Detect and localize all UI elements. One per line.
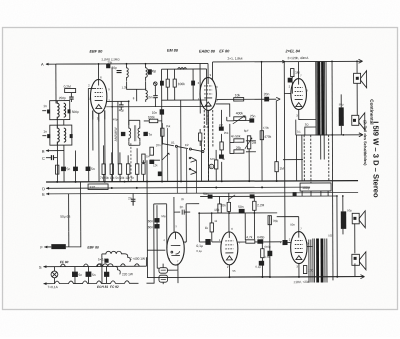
tube U5 ECC83 [221,232,238,265]
svg-text:220 1W: 220 1W [122,272,133,276]
svg-text:25k: 25k [236,146,242,150]
switch verticals [168,128,197,193]
resistor 16k [218,204,221,213]
long verticals right mid [302,135,324,180]
svg-text:1n: 1n [43,104,47,108]
bottom bus right [269,276,364,278]
U4 socket [159,268,168,274]
svg-text:2×EL 84: 2×EL 84 [284,49,300,53]
electrolytic C3 [339,107,344,126]
svg-text:25k: 25k [224,131,229,135]
svg-text:1k: 1k [205,226,209,230]
dashed tuning line [130,143,132,181]
U4 wires [163,197,200,284]
capacitor in can left [47,109,50,113]
svg-text:E: E [42,192,45,197]
anode resistor 10k [217,98,277,100]
resistor R2 100k [173,79,176,87]
svg-text:0,1: 0,1 [297,130,301,134]
svg-text:20p: 20p [108,60,113,64]
diode AVC long line [106,105,210,107]
volume pot 400k [234,117,246,121]
speaker SP4 [352,254,360,265]
cap 2n top [174,210,190,215]
cap 0,1u [259,261,264,265]
top bus to speakers [213,60,363,63]
ratio detector coils [129,125,131,141]
svg-text:7n: 7n [148,133,152,137]
svg-text:I 5I9 W – 3 D – Stereo: I 5I9 W – 3 D – Stereo [371,121,380,198]
junction dots bus [56,180,277,189]
wire to SP1 [356,61,358,115]
svg-text:40p: 40p [113,117,118,121]
svg-text:±10V, +234: ±10V, +234 [293,280,309,284]
bottom long bus [147,276,364,279]
bus E [46,193,358,194]
svg-text:250p: 250p [59,96,66,100]
cap on 269 line [268,251,272,256]
svg-text:50μ: 50μ [347,208,352,212]
electrolytic C8 [341,211,346,229]
resistor R1 [166,79,169,87]
wires splitter top [221,193,277,240]
svg-text:20p: 20p [112,66,118,70]
terminal arrows left edge [43,63,50,285]
capacitor C5 5n [61,167,65,171]
svg-text:16k: 16k [214,208,220,212]
IF can L3/L4 lower [50,125,72,145]
wire top of U1 [57,63,208,79]
capacitor C1 [160,81,163,85]
svg-text:5n: 5n [78,273,82,277]
coil L8 horizontal [178,68,187,70]
svg-text:25k: 25k [166,124,171,128]
svg-text:U1: U1 [171,141,175,145]
connector block label [88,184,108,190]
grid cap 50n [283,240,287,244]
svg-text:20n: 20n [156,143,161,147]
resistor 100k horiz [149,119,158,123]
capacitor C7 5n [86,167,90,171]
svg-text:EABC 80 EF 80‌: EABC 80 EF 80‌ [199,49,230,53]
capacitor in lower can left [47,134,50,138]
coil L7 [146,88,148,102]
verticals below speaker bus [304,135,329,183]
svg-text:1,5k: 1,5k [264,255,270,259]
speaker SP3 [352,213,359,224]
svg-text:20n: 20n [264,92,270,96]
U3 wires [284,61,316,240]
resistor row under ratio det [102,164,105,175]
lamp [51,271,58,278]
svg-text:100p: 100p [302,186,310,190]
grid wire left of tube [88,88,95,181]
svg-text:50μ: 50μ [161,214,166,218]
cap 0,1 [206,239,211,244]
output transformer T1 [316,61,318,135]
svg-text:5Ω: 5Ω [328,233,332,237]
main bus 1 [46,181,358,182]
capacitor 20p [117,71,122,73]
vertical from top bus [261,62,263,99]
svg-text:(2. Teil des Schaltbildes): (2. Teil des Schaltbildes) [363,120,368,166]
svg-text:S: S [39,265,42,270]
contact forks [190,157,196,174]
svg-text:2×1, 1,8k4: 2×1, 1,8k4 [228,57,243,61]
speaker SP1 [354,73,361,83]
wire tube grid to can [56,63,97,65]
svg-text:ECH 81: ECH 81 [97,285,108,289]
capacitor C2 [192,81,195,85]
svg-text:10k: 10k [235,93,241,97]
vertical drops row [104,145,147,181]
speaker SP2 [352,115,359,125]
cap 2n below bus [131,199,136,201]
vertical mid-left to rectifier [147,181,165,277]
svg-text:100k: 100k [178,82,186,86]
cap 50n [239,209,244,213]
svg-text:70k: 70k [273,219,279,223]
pot arrow small [162,153,169,160]
svg-text:1,5M: 1,5M [203,125,210,129]
capacitor in can right [68,109,71,113]
svg-text:A: A [41,62,44,67]
svg-text:K2: K2 [185,143,189,147]
resistor 1,5k [261,249,264,258]
svg-text:2×120h, 40mA: 2×120h, 40mA [288,56,310,60]
svg-text:5n: 5n [92,273,96,277]
resistor 70k [268,216,271,225]
svg-text:10n: 10n [152,111,158,115]
wire from A down [55,64,57,103]
heater bottom wave [43,281,138,284]
caps 50n pair [155,218,159,222]
capacitor in lower can right [70,134,73,138]
circled D [209,164,214,169]
resistor 470k [260,131,263,140]
AVC diode line [106,67,129,181]
bus line at 135.5 [296,134,363,136]
U6 wires [277,217,313,278]
svg-text:1M: 1M [146,154,151,158]
svg-text:50μ: 50μ [339,102,344,106]
IF can L1/L2 top [50,101,70,120]
svg-text:1n: 1n [43,130,47,134]
heater caps [72,272,77,277]
svg-text:C+400 1W: C+400 1W [130,257,145,261]
svg-text:EBF 80: EBF 80 [87,245,99,249]
heater vertical links [75,257,155,283]
svg-text:2n: 2n [181,197,185,201]
svg-text:5n: 5n [91,167,95,171]
svg-text:0,1μ: 0,1μ [196,244,203,248]
speaker wires [337,196,355,277]
svg-text:AM/UKW: AM/UKW [114,127,118,142]
svg-text:50n: 50n [148,225,154,229]
cap 20n left [150,147,154,155]
svg-text:C: C [42,156,45,161]
svg-text:7×0,1A: 7×0,1A [48,285,59,289]
loudness pot 2M [247,136,250,149]
cap on AVC line [107,64,110,67]
svg-text:1,2k: 1,2k [122,85,128,89]
resistor 20k [227,202,230,211]
winding vertical [101,254,103,283]
svg-text:4n 50k: 4n 50k [231,134,241,138]
winding bracket right1 [125,254,130,262]
svg-text:1M: 1M [279,167,284,171]
svg-text:15n: 15n [147,95,153,99]
tube U2 EABC80 [200,77,217,110]
switch contacts diag [163,143,202,151]
svg-text:EBF 80: EBF 80 [89,50,103,54]
EM80 filter box top wire [162,68,207,70]
choke block [51,244,66,249]
cathode resistor [303,266,306,274]
capacitor C6 5n [73,167,77,171]
svg-text:7k 50k 12k 5n 50k 12k 1k: 7k 50k 12k 5n 50k 12k 1k [100,176,135,180]
det wires [129,120,140,145]
cap on bus4 [250,195,254,198]
svg-text:0,1μ: 0,1μ [196,249,202,253]
svg-text:1M: 1M [219,123,224,127]
resistor 4,7k [246,240,255,243]
svg-text:50n: 50n [203,192,209,196]
tone box [300,183,331,191]
winding cap dark [104,259,108,263]
rectifier tube U4 [167,232,185,265]
wires EM80 section [162,69,207,100]
svg-text:640p: 640p [264,245,271,249]
cap 640p [258,240,263,244]
svg-text:2n: 2n [128,196,132,200]
cap beside det [121,132,125,135]
resistor 2,2M [253,201,256,210]
right vertical wire [331,61,334,280]
resistor 1M right [275,162,278,172]
output transformer T2 [309,239,315,283]
tube U1 pins [93,110,105,121]
resistor 0,2M [65,89,76,93]
svg-text:12k: 12k [153,163,158,167]
svg-text:5n: 5n [66,167,70,171]
cap at coil L7 [148,70,151,75]
svg-text:3Ω: 3Ω [305,123,309,127]
loudness resistors [234,139,244,142]
svg-text:25n: 25n [250,114,256,118]
svg-text:2M: 2M [252,141,257,145]
resistor R3 [55,165,58,174]
svg-text:50n: 50n [238,205,244,209]
tube U3 EL84 top [291,79,307,110]
tube U6 EL84 bottom [291,232,308,264]
svg-text:8μF: 8μF [244,129,249,133]
cap 15n [153,96,158,98]
caps left column [220,142,223,150]
arrow terminal on top bus [282,60,285,63]
heater mid bumps [60,264,139,267]
svg-text:500p: 500p [72,110,79,114]
svg-text:470k: 470k [264,135,271,139]
resistor R5 [198,133,201,141]
svg-text:B: B [42,149,45,154]
svg-text:E97····: E97···· [90,185,100,189]
grid network parts [291,69,294,77]
U2 wires top [200,62,213,114]
svg-text:EF 80: EF 80 [60,260,69,264]
pin numbers U1 [88,59,353,273]
svg-text:470k: 470k [263,126,270,130]
arrow at 276 [276,97,280,101]
svg-text:2n: 2n [180,205,184,209]
coil L6 [146,64,148,81]
bus D [46,187,310,188]
misc top-left small parts [42,111,46,136]
capacitor C4 [51,155,53,160]
resistor 1k [210,223,213,232]
splitter wires right [238,213,282,277]
svg-text:0,2M: 0,2M [64,85,71,89]
svg-text:EM 80: EM 80 [167,49,179,53]
arrow terminal C [359,59,363,137]
tube U1 EBF80 [90,79,107,113]
svg-text:4,7k: 4,7k [246,235,252,239]
phase symbol [154,82,158,86]
svg-text:FC 92: FC 92 [110,285,119,289]
wire between coils [127,81,146,101]
capacitor 40p [119,105,124,107]
svg-text:50n: 50n [148,219,154,223]
cap 25n [250,119,254,122]
cap 10n [160,110,164,115]
winding row2 bumps [96,264,114,267]
pot on bus4 [210,195,235,200]
svg-text:640: 640 [210,157,215,161]
svg-text:640p: 640p [257,235,264,239]
resistor R4 [161,128,164,136]
U2 pin drops [204,110,213,181]
wires down from bus to choke area [69,182,81,232]
bus 4 [200,195,336,198]
secondary tap step [305,127,316,135]
vertical drops to bus left [57,110,105,182]
winding bracket right2 [115,266,120,274]
resistor 640 [214,160,217,169]
wires EABC cluster [208,99,262,181]
svg-text:55: 55 [232,269,236,273]
capacitor 250p [69,97,74,99]
capacitor 20n [265,97,269,101]
svg-text:0,1μ: 0,1μ [255,265,261,269]
heater winding row1 [102,251,125,254]
wires under EM80 to bus [162,100,207,181]
verticals below tone box [302,191,328,196]
svg-text:D: D [42,186,45,191]
svg-text:100k: 100k [148,115,155,119]
svg-text:50n: 50n [290,223,295,227]
svg-text:2,2M: 2,2M [257,203,264,207]
coil L5 [127,64,129,81]
svg-text:400k: 400k [236,111,244,115]
svg-text:5×0,1A: 5×0,1A [98,257,109,261]
mid horizontal links [150,136,202,182]
junction dots bottom [198,60,359,278]
